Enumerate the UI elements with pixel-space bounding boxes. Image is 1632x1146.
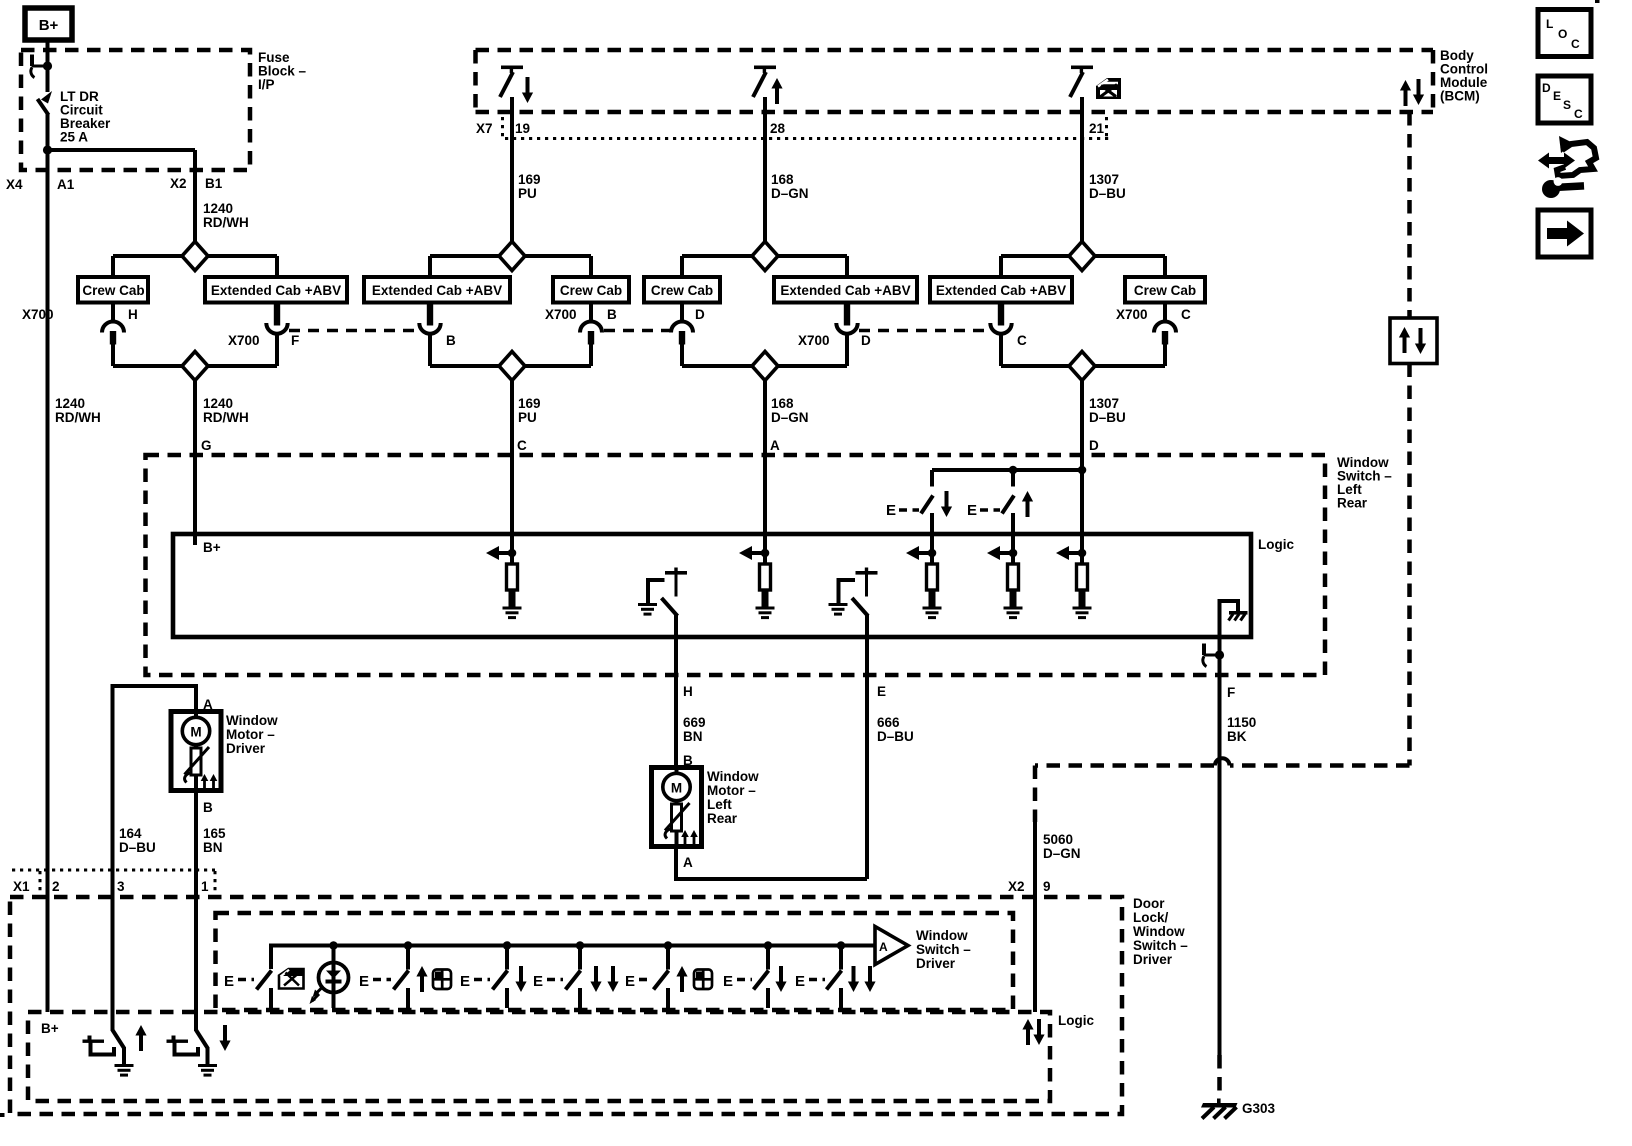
svg-text:D: D [861, 333, 871, 348]
svg-text:Rear: Rear [1337, 496, 1368, 511]
svg-text:B: B [446, 333, 456, 348]
svg-text:Driver: Driver [1133, 952, 1173, 967]
driver logic switch up with contact [83, 1030, 134, 1077]
switch 3 window down [493, 941, 512, 1008]
wire B+ to breaker [46, 40, 50, 92]
icon window open [279, 969, 304, 989]
svg-text:X700: X700 [228, 333, 260, 348]
wire label 1307 D-BU upper [1089, 172, 1126, 201]
svg-text:RD/WH: RD/WH [203, 215, 249, 230]
svg-text:1307: 1307 [1089, 396, 1119, 411]
wire label 666 D-BU [877, 715, 914, 744]
svg-text:165: 165 [203, 826, 226, 841]
connector X700 pin B upper [580, 303, 602, 367]
serial data dashed line horizontal with hop over wire 1150 [1035, 758, 1410, 765]
svg-text:E: E [533, 973, 543, 990]
wire label 168 D-GN upper [771, 172, 809, 201]
BCM switch window down output pin 19 [500, 66, 523, 98]
splice diamond group1 bottom [113, 352, 277, 381]
label Window Motor - Driver [226, 713, 278, 756]
bus wire in switch pack [271, 946, 875, 970]
svg-text:E: E [359, 973, 369, 990]
svg-text:C: C [1574, 107, 1583, 121]
connector clip at B+ feed [30, 55, 52, 78]
svg-text:1150: 1150 [1227, 715, 1256, 730]
option box Extended Cab +ABV 4 [930, 277, 1072, 303]
switch 2 window up [394, 941, 413, 1008]
icon express window at pin 21 [1096, 78, 1121, 99]
LED indicator [310, 941, 349, 1008]
svg-text:1240: 1240 [203, 201, 233, 216]
svg-text:9: 9 [1043, 879, 1051, 894]
svg-text:169: 169 [518, 172, 541, 187]
label E actuator switch 6 [723, 973, 752, 990]
svg-text:Switch –: Switch – [916, 942, 971, 957]
svg-text:RD/WH: RD/WH [55, 410, 101, 425]
BCM dashed box [476, 50, 1434, 112]
svg-text:168: 168 [771, 396, 794, 411]
svg-text:D–BU: D–BU [1089, 186, 1126, 201]
splice diamond group2 top [430, 242, 591, 278]
svg-text:Window: Window [1133, 924, 1185, 939]
svg-text:Extended Cab +ABV: Extended Cab +ABV [211, 283, 341, 298]
svg-text:A1: A1 [57, 177, 75, 192]
switch 6 window down rear [754, 941, 773, 1008]
fuse block dashed box [21, 50, 250, 170]
arrow down switch 3 [515, 966, 526, 992]
dashed jumper wire F to B [289, 329, 419, 333]
option box Crew Cab 4 [1125, 277, 1205, 303]
svg-text:G303: G303 [1242, 1101, 1276, 1116]
svg-text:19: 19 [515, 121, 530, 136]
svg-text:D–BU: D–BU [877, 729, 914, 744]
label X700 D lower [798, 333, 871, 348]
svg-text:E: E [886, 502, 896, 519]
serial data arrows at logic [1022, 1019, 1044, 1045]
resistor and ground below up switch [987, 546, 1023, 619]
serial data dashed line from BCM [1407, 112, 1412, 766]
svg-text:28: 28 [770, 121, 786, 136]
label X700 B upper [545, 307, 617, 322]
svg-text:Switch –: Switch – [1133, 938, 1188, 953]
wire 168 D-GN to A [763, 380, 767, 534]
connector X700 pin D lower [836, 303, 857, 367]
svg-text:B+: B+ [39, 17, 59, 34]
tick mark top right [1595, 0, 1600, 3]
splice diamond group1 top [113, 242, 277, 278]
svg-text:D–GN: D–GN [771, 186, 809, 201]
resistor and ground below down switch [906, 546, 942, 619]
internal switch window down E [921, 470, 933, 534]
svg-text:H: H [128, 307, 138, 322]
serial data arrows inside BCM [1400, 79, 1424, 106]
label Window Switch - Left Rear [1337, 455, 1392, 511]
svg-text:E: E [723, 973, 733, 990]
wire breaker to A1 and B1 [43, 114, 195, 242]
svg-text:BN: BN [683, 729, 703, 744]
label Door Lock/ Window Switch - Driver [1133, 896, 1188, 967]
pin labels X4 A1 X2 B1 [6, 176, 223, 192]
svg-text:5060: 5060 [1043, 832, 1073, 847]
svg-text:(BCM): (BCM) [1440, 89, 1480, 104]
svg-text:I/P: I/P [258, 77, 275, 92]
wire C into logic box [510, 380, 514, 553]
svg-text:2: 2 [52, 879, 60, 894]
connector X700 pin F [266, 303, 287, 367]
switch 1 lock with blade [257, 971, 272, 1009]
arrows double down switch 7 [848, 966, 876, 992]
svg-text:D–GN: D–GN [771, 410, 809, 425]
connector X700 pin H [102, 303, 124, 367]
wire label 168 D-GN A [770, 396, 809, 453]
wire label 164 D-BU [119, 826, 156, 855]
svg-text:E: E [224, 973, 234, 990]
svg-text:Extended Cab +ABV: Extended Cab +ABV [936, 283, 1066, 298]
svg-text:D–GN: D–GN [1043, 846, 1081, 861]
wire label 1240 RD/WH upper [203, 201, 249, 230]
svg-text:C: C [1017, 333, 1027, 348]
svg-text:164: 164 [119, 826, 142, 841]
connector X700 pin D upper [671, 303, 693, 367]
svg-text:Lock/: Lock/ [1133, 910, 1169, 925]
svg-text:H: H [683, 684, 693, 699]
wire label 169 PU C [517, 396, 541, 453]
window motor left rear [652, 768, 702, 847]
arrow up driver logic [135, 1025, 146, 1051]
svg-text:E: E [795, 973, 805, 990]
wire 169 PU from pin 19 [510, 97, 514, 242]
svg-text:E: E [967, 502, 977, 519]
wire D into logic box [1080, 380, 1084, 553]
wire label 669 BN [683, 715, 706, 744]
option box Crew Cab 3 [644, 277, 720, 303]
label E actuator switch 7 [795, 973, 825, 990]
icon box right arrow [1538, 210, 1591, 257]
svg-text:X700: X700 [798, 333, 830, 348]
svg-text:S: S [1563, 98, 1571, 112]
wire motor A loop to E [676, 847, 867, 880]
svg-text:X2: X2 [1008, 879, 1025, 894]
svg-text:X700: X700 [545, 307, 577, 322]
input resistor and ground at D [1056, 546, 1092, 619]
splice diamond group3 top [682, 242, 847, 278]
svg-text:D: D [1542, 81, 1551, 95]
svg-text:PU: PU [518, 410, 537, 425]
svg-text:D: D [695, 307, 705, 322]
svg-text:D–BU: D–BU [119, 840, 156, 855]
arrow down at pin 19 switch [522, 77, 533, 103]
svg-text:Driver: Driver [226, 741, 266, 756]
logic box left rear switch [173, 534, 1251, 637]
svg-text:F: F [1227, 685, 1235, 700]
option box Extended Cab +ABV 3 [774, 277, 917, 303]
svg-text:Motor –: Motor – [707, 783, 756, 798]
tick mark bottom left [0, 1113, 5, 1117]
svg-text:1: 1 [201, 879, 209, 894]
output switch E with ground contact [829, 568, 878, 617]
icon window grid 2 [694, 970, 712, 990]
connector clip at F output [1202, 644, 1224, 667]
battery feed symbol B+ [25, 8, 72, 40]
svg-text:X1: X1 [13, 879, 30, 894]
svg-text:1240: 1240 [55, 396, 85, 411]
label E actuator switch 3 [460, 973, 490, 990]
arrow down switch 6 [775, 966, 786, 992]
window switch left rear dashed box [146, 455, 1326, 675]
circuit breaker LT DR 25 A [38, 91, 53, 115]
wire 1240 RD/WH main B+ feed down left side [46, 150, 50, 1012]
svg-text:Crew Cab: Crew Cab [1134, 283, 1196, 298]
svg-text:A: A [879, 940, 888, 954]
label E actuator switch 4 [533, 973, 563, 990]
label E actuator switch 1 [224, 973, 254, 990]
svg-text:Logic: Logic [1258, 537, 1294, 552]
connector X7 dotted line and pins [503, 117, 1110, 139]
wire output H to motor [674, 615, 678, 775]
arrow up switch 5 [676, 966, 687, 992]
arrows double down switch 4 [590, 966, 618, 992]
svg-text:RD/WH: RD/WH [203, 410, 249, 425]
svg-text:D: D [1089, 438, 1099, 453]
wire label 1150 BK [1227, 715, 1256, 744]
wire output E down [865, 615, 869, 879]
svg-text:B1: B1 [205, 176, 223, 191]
connector X1 dotted line [12, 870, 215, 893]
arrow up switch 2 [416, 966, 427, 992]
svg-text:X4: X4 [6, 177, 23, 192]
svg-text:G: G [201, 438, 212, 453]
svg-text:Left: Left [707, 797, 732, 812]
svg-text:Extended Cab +ABV: Extended Cab +ABV [372, 283, 502, 298]
svg-text:PU: PU [518, 186, 537, 201]
svg-text:B: B [203, 800, 213, 815]
label LT DR Circuit Breaker 25 A [60, 89, 111, 145]
svg-text:Driver: Driver [916, 956, 956, 971]
svg-text:B+: B+ [203, 540, 221, 555]
input resistor and ground at C [486, 546, 522, 619]
wire label 5060 D-GN [1043, 832, 1081, 861]
svg-text:X7: X7 [476, 121, 493, 136]
output switch H with ground contact [638, 568, 687, 617]
svg-text:X2: X2 [170, 176, 187, 191]
label X700 C upper [1116, 307, 1191, 322]
BCM switch window up output pin 28 [753, 66, 776, 98]
svg-text:X700: X700 [22, 307, 54, 322]
label Body Control Module (BCM) [1440, 48, 1488, 104]
svg-text:169: 169 [518, 396, 541, 411]
svg-text:B+: B+ [41, 1021, 59, 1036]
internal chassis ground in logic box [1220, 601, 1248, 637]
wire A into logic box [763, 380, 767, 553]
wire label 1240 RD/WH left [55, 396, 101, 425]
option box Crew Cab 2 [553, 277, 629, 303]
svg-text:3: 3 [117, 879, 125, 894]
pin labels X1 2 3 1 [13, 879, 209, 894]
svg-text:B: B [607, 307, 617, 322]
svg-text:Motor –: Motor – [226, 727, 275, 742]
wire 1240 RD/WH to G [193, 380, 197, 534]
connector X700 pin C upper [1154, 303, 1176, 367]
arrow up at internal switch [1022, 491, 1033, 517]
driver logic switch down with contact [167, 1030, 218, 1077]
svg-text:1307: 1307 [1089, 172, 1119, 187]
svg-text:O: O [1558, 27, 1567, 41]
wire G into logic box [193, 380, 197, 545]
option box Extended Cab +ABV 1 [205, 277, 347, 303]
svg-text:A: A [770, 438, 780, 453]
icon box LOC [1538, 10, 1591, 57]
connector X700 pin C lower [990, 303, 1011, 367]
wire label 169 PU upper [518, 172, 541, 201]
wire 1307 D-BU from pin 21 [1080, 97, 1084, 242]
svg-text:Window: Window [226, 713, 278, 728]
svg-text:C: C [1571, 37, 1580, 51]
wire 169 PU to C [510, 380, 514, 534]
svg-text:A: A [683, 855, 693, 870]
svg-text:Extended Cab +ABV: Extended Cab +ABV [780, 283, 910, 298]
switch 4 express down [566, 941, 585, 1008]
svg-text:BK: BK [1227, 729, 1247, 744]
svg-text:1240: 1240 [203, 396, 233, 411]
arrow down driver logic [219, 1025, 230, 1051]
switch pack dashed box [216, 913, 1014, 1010]
pin labels X2 9 [1008, 879, 1051, 894]
svg-text:E: E [625, 973, 635, 990]
ground G303 [1201, 1099, 1238, 1119]
label Window Switch - Driver [916, 928, 971, 971]
svg-text:C: C [1181, 307, 1191, 322]
label X700 H [22, 307, 138, 322]
label E dashed actuator up switch [967, 502, 1000, 519]
option box Extended Cab +ABV 2 [364, 277, 510, 303]
svg-text:E: E [1553, 89, 1561, 103]
svg-text:21: 21 [1089, 121, 1105, 136]
label E actuator switch 5 [625, 973, 652, 990]
serial data dashed drop to X2 [1033, 766, 1038, 823]
label Fuse Block - I/P [258, 50, 307, 92]
wire logic box to F [1218, 637, 1222, 1055]
door lock window switch driver dashed box [10, 897, 1122, 1114]
svg-text:F: F [291, 333, 299, 348]
wire switch to resistor [930, 513, 934, 553]
amplifier driver output A [875, 927, 908, 965]
dashed jumper wire D to C [859, 329, 989, 333]
svg-text:Rear: Rear [707, 811, 738, 826]
svg-text:168: 168 [771, 172, 794, 187]
svg-text:Crew Cab: Crew Cab [560, 283, 622, 298]
wire 168 D-GN from pin 28 [763, 97, 767, 242]
svg-text:D–BU: D–BU [1089, 410, 1126, 425]
wire 1307 D-BU to D [1080, 380, 1084, 470]
svg-text:25 A: 25 A [60, 130, 88, 145]
svg-text:669: 669 [683, 715, 706, 730]
label E dashed actuator down switch [886, 502, 919, 519]
internal switch window up E [1002, 470, 1014, 534]
dashed jumper wire B to D [604, 329, 671, 333]
wire 1150 BK dashed to ground [1217, 1055, 1222, 1092]
splice diamond group4 top [1001, 242, 1165, 278]
svg-text:Window: Window [916, 928, 968, 943]
arrow up at pin 28 switch [771, 78, 782, 104]
svg-text:E: E [877, 684, 886, 699]
wire 165 BN motor B down [194, 791, 198, 1032]
svg-text:L: L [1546, 17, 1553, 31]
driver logic dashed box [28, 1012, 1050, 1101]
svg-text:Crew Cab: Crew Cab [82, 283, 144, 298]
input resistor and ground at A [739, 546, 775, 619]
serial data box with up down arrows [1390, 318, 1437, 364]
splice diamond group4 bottom [1001, 352, 1165, 381]
option box Crew Cab 1 [78, 277, 148, 303]
wire A driver motor loop [113, 686, 197, 1031]
svg-text:666: 666 [877, 715, 900, 730]
switch 7 express down rear [827, 941, 846, 1008]
svg-text:E: E [460, 973, 470, 990]
label X700 F [228, 333, 299, 348]
wire switch to resistor [1011, 513, 1015, 553]
label Window Motor - Left Rear [707, 769, 759, 826]
wire label 1307 D-BU D [1089, 396, 1126, 453]
svg-text:BN: BN [203, 840, 223, 855]
icon window grid 1 [433, 970, 451, 990]
splice diamond group2 bottom [430, 352, 591, 381]
window motor driver [171, 712, 221, 791]
switch 5 window up rear [654, 941, 673, 1008]
svg-text:C: C [517, 438, 527, 453]
svg-text:X700: X700 [1116, 307, 1148, 322]
svg-text:Crew Cab: Crew Cab [651, 283, 713, 298]
svg-text:Door: Door [1133, 896, 1165, 911]
pin labels X7 19 28 21 [476, 121, 1105, 136]
icon box DESC [1538, 76, 1591, 123]
icon diagnostic wrench with arrows [1538, 136, 1596, 198]
svg-text:Window: Window [707, 769, 759, 784]
label E actuator switch 2 [359, 973, 391, 990]
BCM switch express output pin 21 [1070, 66, 1093, 98]
wire 5060 D-GN serial data [1033, 822, 1037, 1012]
wire label 165 BN [203, 826, 226, 855]
wire D branch to internal switches [932, 466, 1086, 475]
arrow down at internal switch [941, 491, 952, 517]
svg-text:Logic: Logic [1058, 1013, 1094, 1028]
wire label 1240 RD/WH G [201, 396, 249, 453]
splice diamond group3 bottom [682, 352, 847, 381]
connector X700 pin B lower [419, 303, 440, 367]
